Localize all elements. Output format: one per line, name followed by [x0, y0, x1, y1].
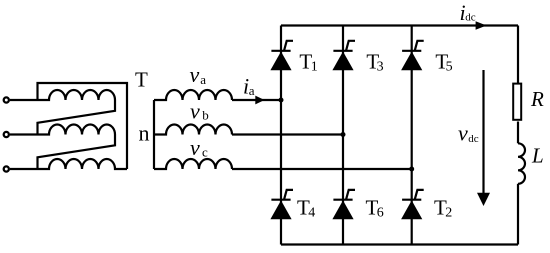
wire phase c to bridge leg 3	[232, 168, 412, 170]
wire terminal C to delta	[10, 168, 38, 170]
wire load branch bottom	[517, 184, 519, 245]
svg-text:b: b	[202, 108, 209, 123]
thyristor T2	[401, 190, 424, 219]
svg-text:L: L	[531, 144, 544, 168]
thyristor T5	[401, 41, 424, 71]
svg-text:4: 4	[308, 205, 315, 220]
resistor R	[513, 84, 521, 120]
node phase c junction dot	[409, 167, 414, 172]
secondary winding b	[154, 125, 232, 135]
svg-text:c: c	[202, 144, 208, 159]
wire bridge leg 1	[280, 26, 282, 245]
secondary winding a	[154, 90, 232, 100]
thyristor T4	[270, 190, 293, 219]
thyristor T3	[332, 41, 355, 71]
wire bridge leg 2	[342, 26, 344, 245]
wire winding2 end to winding3 start (diagonal)	[38, 135, 116, 170]
arrow vdc (voltage reference)	[477, 70, 490, 206]
svg-text:v: v	[190, 98, 200, 123]
svg-text:T: T	[135, 67, 148, 91]
wire between R and L	[517, 122, 519, 144]
svg-text:3: 3	[377, 59, 384, 74]
secondary winding c	[154, 159, 232, 169]
node phase b junction dot	[341, 132, 346, 137]
svg-text:5: 5	[446, 59, 453, 74]
terminal B (input phase 2)	[4, 132, 9, 137]
svg-text:dc: dc	[468, 133, 479, 145]
node n neutral bus	[153, 100, 155, 169]
transformer T primary winding 2	[38, 125, 116, 135]
svg-text:v: v	[458, 120, 468, 145]
node phase a junction dot	[279, 98, 284, 103]
svg-text:v: v	[190, 135, 200, 160]
wire load branch top	[517, 26, 519, 84]
transformer T primary winding 3	[38, 159, 128, 169]
wire top dc bus	[281, 24, 518, 26]
svg-text:1: 1	[311, 59, 318, 74]
arrowhead current ia	[255, 96, 264, 105]
svg-text:a: a	[249, 83, 255, 98]
terminal A (input phase 1)	[4, 97, 9, 102]
svg-text:v: v	[190, 62, 200, 87]
wire phase b to bridge leg 2	[232, 133, 343, 135]
svg-text:6: 6	[377, 205, 384, 220]
svg-text:dc: dc	[465, 12, 476, 24]
wire terminal B to delta	[10, 133, 38, 135]
wire delta closing link (up, over top, down right side)	[38, 83, 128, 169]
wire bridge leg 3	[411, 26, 413, 245]
svg-text:a: a	[200, 72, 206, 87]
arrowhead current idc	[476, 21, 487, 30]
wire phase a to bridge leg 1	[232, 99, 281, 101]
thyristor T1	[270, 41, 293, 71]
svg-text:n: n	[139, 120, 150, 145]
thyristor T6	[332, 190, 355, 219]
transformer T primary winding 1	[38, 90, 116, 100]
svg-text:2: 2	[445, 205, 452, 220]
inductor L	[518, 143, 525, 184]
svg-text:R: R	[530, 87, 544, 111]
wire terminal A to delta	[10, 99, 38, 101]
wire winding1 end to winding2 start (diagonal)	[38, 100, 116, 135]
wire bottom dc bus	[281, 243, 518, 245]
terminal C (input phase 3)	[4, 166, 9, 171]
